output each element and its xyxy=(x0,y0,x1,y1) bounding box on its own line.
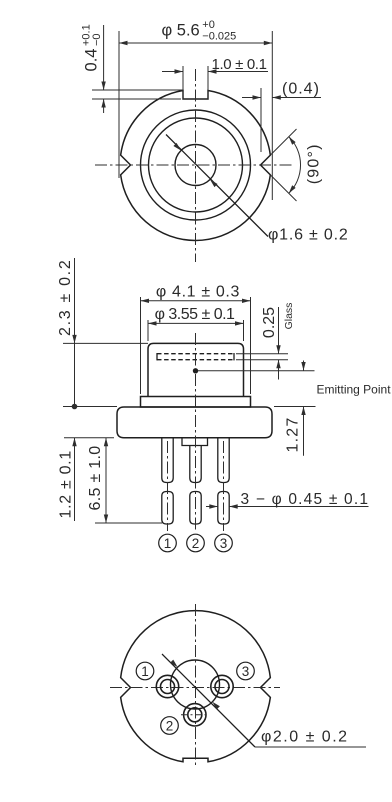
top view: emission window circle (phi 1.6) xyxy=(175,145,216,186)
svg-text:(0.4): (0.4) xyxy=(282,81,320,98)
side view: vertical centerline through cap and lead 2 xyxy=(195,333,197,531)
dimension 1.2 line below with outside arrow xyxy=(74,438,76,521)
bottom view pin label 3 xyxy=(237,662,255,680)
svg-text:1: 1 xyxy=(164,536,172,551)
side view: lead 2 upper segment xyxy=(190,446,201,483)
phi5.6 right extension line xyxy=(271,31,273,200)
dimension phi5.6 with tolerance: dimension line and arrows xyxy=(119,42,272,44)
dimension phi4.1 line with arrows xyxy=(141,300,251,302)
side view: lead 3 lower segment (after break) xyxy=(218,492,229,525)
dimension 2.3 vertical line with arrows xyxy=(74,258,76,407)
dimension 0.4 vertical dimension line with outside arrows xyxy=(103,25,105,90)
svg-text:2: 2 xyxy=(166,718,174,733)
side view: emitting point dot xyxy=(193,368,198,373)
emitting point leader line xyxy=(198,370,315,372)
side view: lead 2 lower segment (after break) xyxy=(190,492,201,525)
bottom view: pin 2 eyelet xyxy=(184,704,206,726)
svg-text:6.5 ± 1.0: 6.5 ± 1.0 xyxy=(87,446,104,511)
dimension phi3.55: extension lines xyxy=(147,320,149,341)
bottom view pin label 2 xyxy=(161,717,179,735)
bottom view: vertical centerline xyxy=(195,604,197,768)
dimension 0.4 (notch depth): extension lines extending left xyxy=(92,89,183,91)
dimension 6.5 line with arrows xyxy=(105,438,107,523)
bottom view: stem outline with side notches and index tab notch xyxy=(121,611,271,762)
side view: stem flange (phi 5.6) xyxy=(117,407,272,438)
side view: cap cylinder (phi 3.55 body) xyxy=(148,343,244,396)
svg-text:3: 3 xyxy=(220,536,228,551)
dimension 1.0 arrows and lines xyxy=(162,71,183,73)
svg-text:2.3 ± 0.2: 2.3 ± 0.2 xyxy=(57,259,74,336)
svg-text:0.25: 0.25 xyxy=(261,307,278,338)
dimension 1.27: flange-top extension line right xyxy=(274,406,316,408)
bottom view: pin 3 eyelet xyxy=(211,675,233,697)
dimension (0.4) arrows xyxy=(242,97,261,99)
side view pin number 3 xyxy=(215,534,233,552)
svg-text:−0: −0 xyxy=(91,33,103,46)
top view: vertical centerline xyxy=(195,69,197,262)
dimension arc (90 deg) with arrows xyxy=(289,137,301,194)
bottom view: pin circle phi2.0 xyxy=(171,660,220,709)
dimension phi3.55 line with arrows xyxy=(148,322,244,324)
svg-text:0.4: 0.4 xyxy=(83,49,101,72)
bottom view: horizontal centerline xyxy=(110,687,280,689)
side view: lead 1 centerline xyxy=(167,441,169,531)
top view: right notch edge extension lines for 90-deg dimension xyxy=(270,129,296,155)
svg-text:1.2 ± 0.1: 1.2 ± 0.1 xyxy=(58,450,75,518)
svg-text:(90°): (90°) xyxy=(306,143,323,184)
side view: glass window (dashed) inside cap xyxy=(157,353,234,355)
phi5.6 left extension line xyxy=(118,31,120,178)
svg-text:1: 1 xyxy=(141,664,149,679)
svg-text:3: 3 xyxy=(242,664,250,679)
top view: cap window circle (phi 3.55) xyxy=(149,118,243,212)
side view: weld ring step (phi 4.1) xyxy=(141,397,251,408)
dimension 1.2 (flange thickness): flange-bottom extension line xyxy=(64,437,114,439)
side view: center lead collar xyxy=(182,438,208,446)
dimension 0.25 (glass): extension lines right of cap xyxy=(236,353,288,355)
svg-text:φ1.6 ± 0.2: φ1.6 ± 0.2 xyxy=(268,227,349,244)
top view: cap outer circle (phi 4.1) xyxy=(141,110,251,220)
svg-text:φ2.0 ± 0.2: φ2.0 ± 0.2 xyxy=(261,729,349,746)
dimension 0.25 line with outside arrows xyxy=(278,307,280,354)
dimension (0.4) right side: apex extension line xyxy=(260,88,262,152)
side view: lead 3 upper segment xyxy=(218,438,229,483)
svg-text:+0: +0 xyxy=(202,19,215,31)
svg-text:Glass: Glass xyxy=(283,303,295,330)
svg-text:Emitting Point: Emitting Point xyxy=(317,382,392,396)
side view: lead 1 upper segment xyxy=(162,438,173,483)
svg-text:φ 3.55 ± 0.1: φ 3.55 ± 0.1 xyxy=(155,306,235,323)
dimension 6.5 (lead length): lead-end extension line xyxy=(95,522,162,524)
svg-text:φ 5.6: φ 5.6 xyxy=(162,22,200,40)
bottom view: pin 1 eyelet xyxy=(156,675,178,697)
pin 2 horizontal crosshair xyxy=(181,714,209,716)
dimension phi1.6: diagonal leader line at 45 deg xyxy=(166,135,268,237)
dimension phi4.1: extension lines xyxy=(140,297,142,394)
dimension 3-phi0.45 (lead dia): arrows at lead 3 xyxy=(206,506,218,508)
svg-text:1.27: 1.27 xyxy=(285,417,302,453)
side view: lead 3 centerline xyxy=(223,441,225,531)
svg-text:−0.025: −0.025 xyxy=(202,31,236,43)
svg-text:1.0 ± 0.1: 1.0 ± 0.1 xyxy=(212,56,267,73)
side view: lead 1 lower segment (after break) xyxy=(162,492,173,525)
svg-text:3 − φ 0.45 ± 0.1: 3 − φ 0.45 ± 0.1 xyxy=(241,491,370,508)
phi2.0 horizontal leader xyxy=(255,746,366,748)
side view pin number 1 xyxy=(159,534,177,552)
dimension 1.27 line with outside arrows xyxy=(303,361,305,371)
svg-text:2: 2 xyxy=(192,536,200,551)
bottom view pin label 1 xyxy=(136,662,154,680)
side view pin number 2 xyxy=(187,534,205,552)
svg-text:φ 4.1 ± 0.3: φ 4.1 ± 0.3 xyxy=(156,284,240,301)
flange-top extension line to left xyxy=(63,406,117,408)
top view: can outline (phi 5.6 body with orientation notch and two 90-deg side notches) xyxy=(121,91,271,241)
dimension phi2.0: diagonal leader at 45 deg with arrows xyxy=(162,654,255,747)
top view: horizontal centerline xyxy=(95,164,294,166)
dimension 1.0 (notch width): extension lines xyxy=(182,66,184,99)
dimension 2.3: cap-top extension line to left xyxy=(63,342,148,344)
